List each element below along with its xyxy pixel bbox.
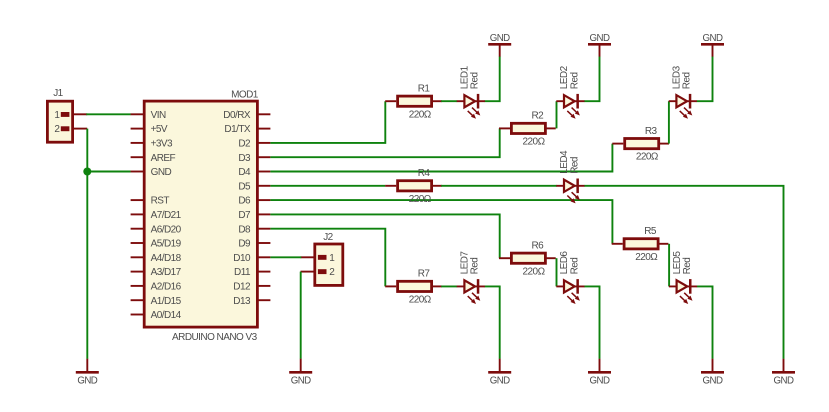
svg-text:R3: R3 (645, 126, 658, 137)
LED LED6 (556, 279, 584, 304)
svg-text:GND: GND (703, 33, 723, 44)
svg-text:D1/TX: D1/TX (224, 124, 250, 135)
ground GND (top, x=499.7) (488, 33, 511, 57)
svg-text:R7: R7 (418, 269, 431, 280)
svg-text:R2: R2 (532, 111, 545, 122)
value Red of LED4 (569, 157, 580, 174)
svg-text:D11: D11 (234, 267, 251, 278)
wire R7 to LED7 (441, 285, 457, 287)
resistor R3 (612, 139, 669, 149)
label R6 (532, 240, 545, 251)
ground GND (bottom, x=87.3) (76, 359, 99, 387)
pin 1 of J2 (329, 253, 335, 264)
label J1 (53, 88, 63, 99)
wire D5 to R4 (270, 185, 385, 187)
svg-text:AREF: AREF (151, 153, 176, 164)
label LED3 (672, 65, 683, 89)
svg-text:D6: D6 (238, 196, 251, 207)
svg-text:D3: D3 (238, 153, 251, 164)
value 220&#937; of R5 (635, 252, 658, 263)
connector J1 (47, 101, 87, 142)
svg-text:D5: D5 (238, 181, 251, 192)
wire D10 to J2 pin1 (270, 256, 301, 258)
svg-text:A1/D15: A1/D15 (151, 296, 182, 307)
value Red of LED5 (682, 258, 693, 275)
wire LED7 to bottom ground (485, 286, 500, 359)
wire LED5 to bottom ground (697, 286, 713, 359)
label R1 (418, 83, 431, 94)
wire D3 to R2 (270, 128, 499, 157)
svg-text:Red: Red (569, 258, 580, 275)
svg-text:A6/D20: A6/D20 (151, 224, 182, 235)
wire R3 to LED3 (668, 101, 670, 143)
value ARDUINO NANO V3 (172, 332, 258, 343)
pin 1 of J1 (54, 110, 60, 121)
LED LED5 (669, 279, 697, 304)
svg-text:220Ω: 220Ω (409, 295, 432, 306)
ground GND (bottom, x=300.7) (289, 359, 312, 387)
svg-text:GND: GND (590, 33, 610, 44)
svg-text:GND: GND (490, 33, 510, 44)
value 220&#937; of R1 (409, 109, 432, 120)
wire R1 to LED1 (441, 100, 457, 102)
svg-text:GND: GND (151, 167, 172, 178)
label LED4 (559, 150, 570, 174)
value Red of LED2 (569, 72, 580, 89)
svg-text:A7/D21: A7/D21 (151, 210, 182, 221)
svg-text:D9: D9 (238, 239, 251, 250)
svg-text:D0/RX: D0/RX (223, 110, 251, 121)
label R3 (645, 126, 658, 137)
resistor R1 (385, 96, 442, 106)
svg-text:+5V: +5V (151, 124, 168, 135)
label LED7 (460, 251, 471, 275)
wire J2 pin2 to ground (300, 272, 302, 359)
svg-text:Red: Red (470, 258, 481, 275)
svg-text:220Ω: 220Ω (409, 109, 432, 120)
ground GND (bottom, x=712.5) (701, 359, 724, 387)
module MOD1 ARDUINO NANO V3 (131, 101, 271, 327)
svg-text:Red: Red (569, 72, 580, 89)
ground GND (bottom, x=499.7) (488, 359, 511, 387)
junction on GND net (83, 168, 91, 176)
svg-text:D7: D7 (238, 210, 251, 221)
svg-text:Red: Red (682, 72, 693, 89)
svg-text:R6: R6 (532, 240, 545, 251)
wire GND net branch to MOD1 GND pin (87, 171, 131, 173)
LED LED2 (556, 94, 584, 119)
wire D2 to R1 (270, 101, 385, 143)
svg-text:J2: J2 (323, 232, 333, 243)
wire LED4 to right ground (584, 186, 783, 359)
svg-text:RST: RST (151, 196, 170, 207)
svg-text:MOD1: MOD1 (231, 89, 259, 100)
wire D8 to R7 (270, 229, 385, 287)
value Red of LED1 (470, 72, 481, 89)
svg-text:220Ω: 220Ω (635, 252, 658, 263)
svg-text:A5/D19: A5/D19 (151, 239, 182, 250)
label LED2 (559, 65, 570, 89)
svg-text:GND: GND (490, 375, 510, 386)
svg-text:D10: D10 (233, 253, 251, 264)
svg-text:220Ω: 220Ω (636, 152, 659, 163)
label LED6 (559, 251, 570, 275)
ground GND (bottom, x=783.5) (772, 359, 795, 387)
svg-text:220Ω: 220Ω (409, 194, 432, 205)
resistor R7 (385, 281, 442, 291)
svg-text:D8: D8 (238, 224, 251, 235)
svg-text:GND: GND (77, 375, 97, 386)
svg-text:Red: Red (682, 258, 693, 275)
svg-text:A0/D14: A0/D14 (151, 310, 182, 321)
pin 2 of J1 (54, 124, 60, 135)
value Red of LED7 (470, 258, 481, 275)
ground GND (top, x=712.5) (701, 33, 724, 57)
pin 2 of J2 (329, 267, 335, 278)
wire R6 to LED6 (556, 258, 558, 286)
wire R4 to LED4 (441, 185, 557, 187)
wire D7 to R6 (270, 214, 499, 258)
label R2 (532, 111, 545, 122)
value 220&#937; of R2 (523, 137, 546, 148)
svg-text:D2: D2 (238, 139, 251, 150)
svg-text:R5: R5 (644, 226, 657, 237)
wire D4 to R3 (270, 144, 612, 172)
label MOD1 (231, 89, 259, 100)
label J2 (323, 232, 333, 243)
svg-text:+3V3: +3V3 (151, 139, 173, 150)
svg-text:J1: J1 (53, 88, 63, 99)
svg-text:ARDUINO NANO V3: ARDUINO NANO V3 (172, 332, 258, 343)
svg-text:R1: R1 (418, 83, 431, 94)
label LED1 (460, 65, 471, 89)
ground GND (bottom, x=599.5) (588, 359, 611, 387)
resistor R2 (499, 123, 556, 133)
value 220&#937; of R3 (636, 152, 659, 163)
label R7 (418, 269, 431, 280)
svg-text:VIN: VIN (151, 110, 166, 121)
wire J1 pin1 to MOD1 VIN (86, 113, 131, 115)
wire GND net from J1 pin2 down to ground (86, 129, 88, 359)
wire R5 to LED5 (668, 244, 670, 287)
wire LED6 to bottom ground (584, 286, 599, 359)
svg-text:A2/D16: A2/D16 (151, 282, 182, 293)
svg-text:Red: Red (470, 72, 481, 89)
LED LED1 (457, 94, 485, 119)
label LED5 (672, 251, 683, 275)
value Red of LED3 (682, 72, 693, 89)
ground GND (top, x=599.5) (588, 33, 611, 57)
svg-text:A3/D17: A3/D17 (151, 267, 182, 278)
svg-text:GND: GND (774, 375, 794, 386)
svg-text:A4/D18: A4/D18 (151, 253, 182, 264)
LED LED3 (669, 94, 697, 119)
value 220&#937; of R4 (409, 194, 432, 205)
value Red of LED6 (569, 258, 580, 275)
LED LED7 (457, 279, 485, 304)
svg-text:D12: D12 (233, 282, 251, 293)
svg-text:GND: GND (590, 375, 610, 386)
svg-text:220Ω: 220Ω (523, 266, 546, 277)
resistor R5 (612, 239, 669, 249)
svg-text:Red: Red (569, 157, 580, 174)
svg-text:GND: GND (703, 375, 723, 386)
svg-text:R4: R4 (418, 168, 431, 179)
svg-text:220Ω: 220Ω (523, 137, 546, 148)
value 220&#937; of R7 (409, 295, 432, 306)
svg-text:GND: GND (291, 375, 311, 386)
wire LED2 to top ground (584, 56, 599, 101)
resistor R6 (499, 253, 556, 263)
label R5 (644, 226, 657, 237)
wire R2 to LED2 (556, 101, 558, 128)
svg-text:D4: D4 (238, 167, 251, 178)
wire D6 to R5 (270, 200, 612, 244)
connector J2 (301, 244, 343, 285)
wire LED1 to top ground (485, 56, 500, 101)
label R4 (418, 168, 431, 179)
value 220&#937; of R6 (523, 266, 546, 277)
LED LED4 (556, 179, 584, 204)
svg-text:D13: D13 (233, 296, 251, 307)
resistor R4 (385, 181, 442, 191)
wire LED3 to top ground (697, 56, 713, 101)
